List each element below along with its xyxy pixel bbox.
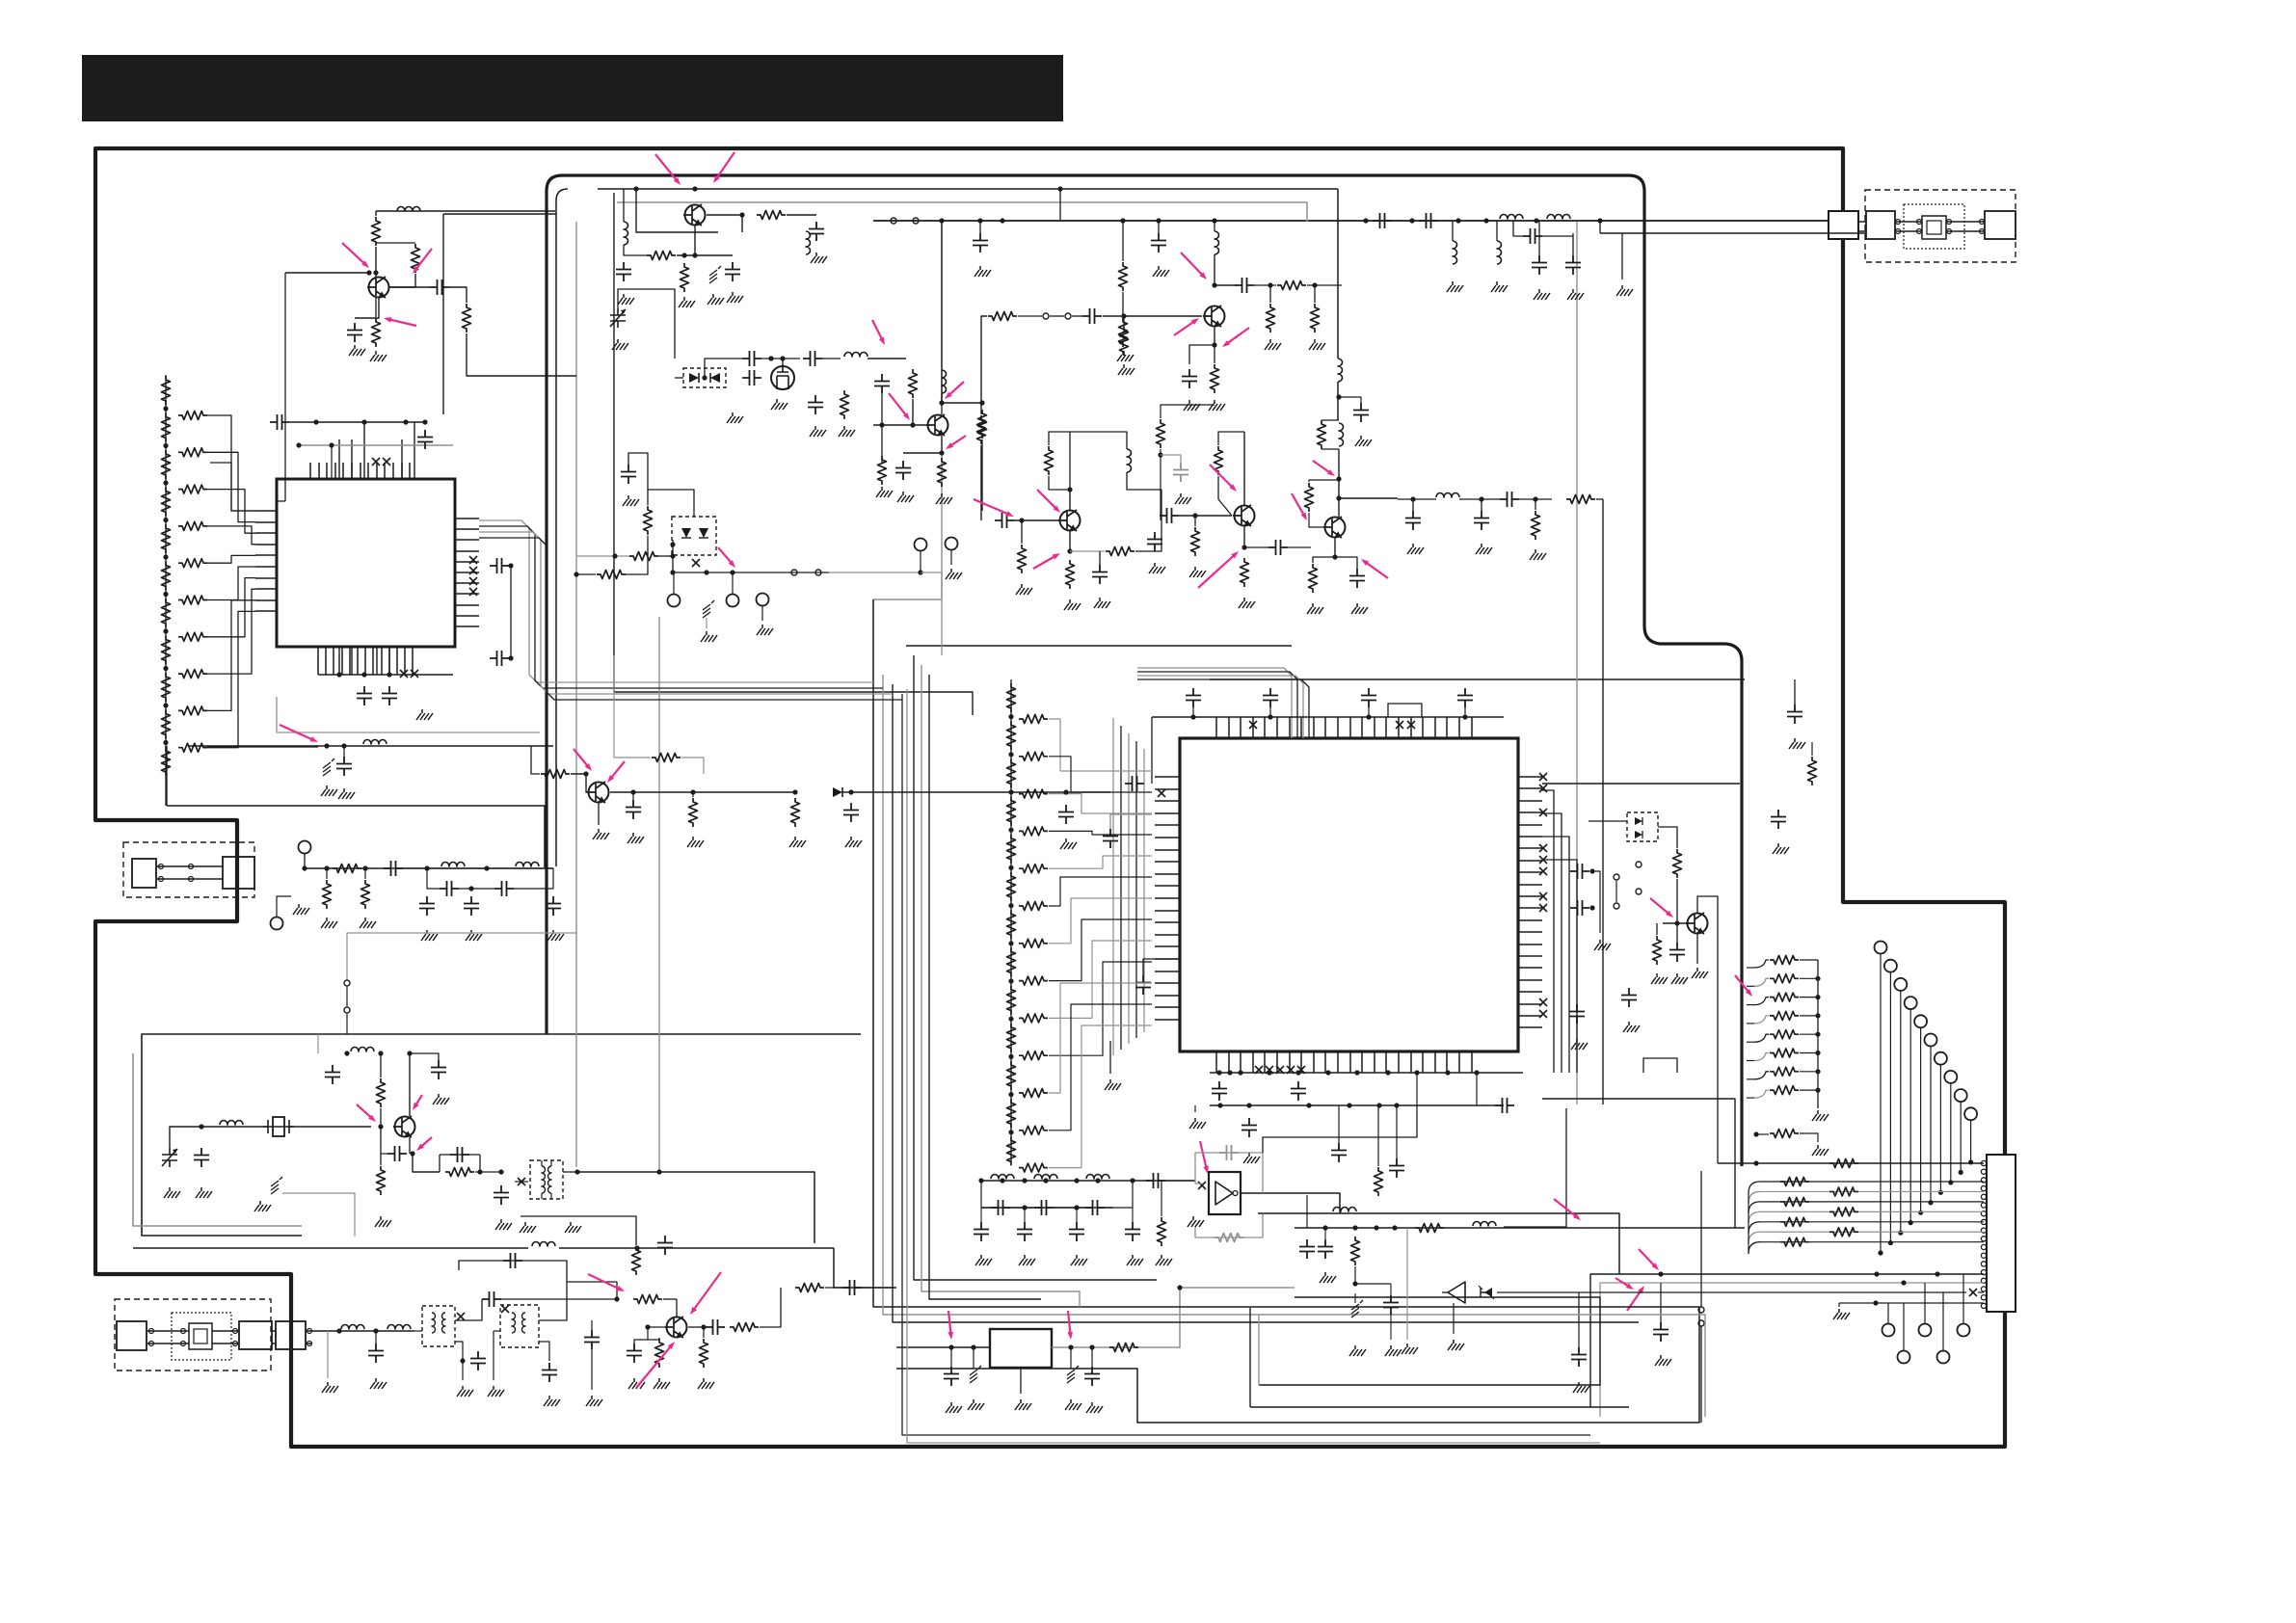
wire Q2 bias rail bbox=[636, 189, 718, 232]
wire bbox=[658, 555, 673, 557]
inductor L22 bbox=[516, 863, 539, 866]
junction bbox=[1212, 218, 1216, 223]
capacitor C76 bbox=[1135, 975, 1151, 995]
wire bbox=[1811, 742, 1813, 756]
capacitor C73 bbox=[1361, 688, 1376, 707]
ground U2 bottom bbox=[1189, 1118, 1206, 1129]
wire bbox=[1338, 1105, 1340, 1143]
wire bbox=[326, 868, 328, 879]
wire bbox=[648, 490, 694, 517]
capacitor C52 bbox=[1092, 565, 1108, 584]
junction bbox=[1462, 714, 1467, 719]
wire bbox=[1309, 513, 1324, 527]
wire bbox=[591, 1349, 593, 1390]
inductor L6 bbox=[942, 370, 947, 393]
pin bbox=[815, 570, 821, 575]
capacitor C14 bbox=[490, 651, 509, 666]
ground bbox=[1651, 973, 1668, 984]
wire south rail 2 bbox=[1259, 1297, 1600, 1385]
capacitor C120 bbox=[194, 1148, 209, 1167]
ground bbox=[1594, 940, 1611, 950]
audio PA inverter box bbox=[1209, 1172, 1241, 1214]
arrow Q5 c bbox=[1181, 253, 1207, 279]
NC bbox=[1249, 721, 1257, 729]
capacitor C101 bbox=[626, 800, 641, 819]
wire bbox=[1127, 472, 1161, 520]
ground bbox=[1573, 1382, 1589, 1393]
resistor R707 bbox=[1007, 947, 1016, 976]
antenna assembly dashed enclosure bbox=[1865, 190, 2016, 262]
resistor R23 bbox=[757, 211, 786, 220]
arrow Q6 b bbox=[1037, 490, 1060, 513]
wire bbox=[1747, 1041, 1754, 1043]
ground inv bbox=[1188, 1216, 1204, 1227]
capacitor C131 bbox=[482, 1291, 501, 1307]
wire bbox=[567, 1281, 617, 1283]
capacitor C79 bbox=[1291, 1081, 1306, 1101]
NC bbox=[1969, 1289, 1977, 1296]
wire U2 left bus 2 bbox=[1120, 726, 1122, 1050]
ground bbox=[897, 492, 914, 502]
cap bridge bbox=[459, 1261, 567, 1282]
fan curve bbox=[1754, 960, 1769, 968]
arrow PA out bbox=[1554, 1199, 1581, 1220]
junction bbox=[1674, 920, 1679, 925]
speaker filter element bbox=[189, 1323, 212, 1349]
ground TP5 bbox=[946, 569, 962, 579]
oscillator section frame bbox=[133, 1034, 861, 1236]
resistor R90 bbox=[1770, 956, 1799, 965]
ground bbox=[876, 487, 893, 497]
capacitor C85 bbox=[1570, 864, 1589, 879]
junction bbox=[378, 1124, 383, 1129]
capacitor C137 bbox=[706, 1319, 725, 1335]
inductor L36 bbox=[1473, 1222, 1496, 1227]
capacitor C54 bbox=[1160, 508, 1179, 523]
inductor L20 bbox=[363, 740, 387, 745]
feedthrough bbox=[323, 758, 334, 776]
junction bbox=[163, 406, 168, 411]
wire bbox=[1658, 827, 1677, 848]
resistor R708 bbox=[1007, 986, 1016, 1015]
junction bbox=[1483, 218, 1488, 223]
wire bbox=[703, 1327, 705, 1338]
inductor L34 bbox=[1086, 1175, 1109, 1180]
junction bbox=[1067, 487, 1072, 492]
capacitor C12 bbox=[417, 430, 433, 449]
wire bbox=[1535, 499, 1536, 510]
resistor R705 bbox=[1007, 872, 1016, 901]
capacitor C74 bbox=[1457, 688, 1473, 707]
wire bbox=[1070, 1347, 1072, 1369]
resistor R158 bbox=[1158, 1217, 1166, 1246]
ground U1 bbox=[416, 709, 433, 720]
wire reg output bbox=[1052, 1288, 1180, 1347]
wire bbox=[1069, 531, 1071, 551]
wire U2 top feed 2 bbox=[1137, 672, 1297, 738]
resistor R106 bbox=[1780, 1237, 1809, 1246]
junction bbox=[1212, 342, 1216, 347]
wire AF route bbox=[167, 806, 545, 867]
capacitor C86 bbox=[1570, 900, 1589, 916]
ground bbox=[338, 788, 355, 799]
w bbox=[1354, 1293, 1356, 1303]
NC bbox=[1407, 721, 1415, 729]
wire to bus bbox=[467, 333, 576, 376]
capacitor C29 bbox=[808, 395, 823, 414]
NC bbox=[1539, 998, 1547, 1006]
junction bbox=[702, 375, 707, 380]
resistor R100 bbox=[1780, 1178, 1809, 1186]
resistor R105 bbox=[162, 562, 171, 591]
capacitor C51 bbox=[995, 513, 1014, 528]
transistor Q8 bbox=[1323, 517, 1346, 538]
ground bbox=[375, 1216, 391, 1227]
wire pad drop bbox=[1930, 1047, 1932, 1203]
junction bbox=[296, 442, 301, 447]
NC bbox=[1539, 785, 1547, 792]
RF section frame bbox=[547, 175, 1742, 1166]
RC pair bbox=[440, 1155, 480, 1172]
wire pad drop bbox=[1970, 1121, 1972, 1162]
wire bbox=[635, 1228, 637, 1245]
wire Q11 collector bbox=[409, 1053, 411, 1116]
junction bbox=[424, 865, 429, 870]
NC bbox=[1539, 1010, 1547, 1018]
wire TP drop bbox=[921, 572, 942, 655]
wire bbox=[1309, 480, 1339, 482]
wire bbox=[380, 1053, 382, 1078]
wire bank link bbox=[1049, 941, 1152, 1018]
junction bbox=[1363, 218, 1368, 223]
wire bbox=[760, 1288, 781, 1327]
wire bbox=[1243, 432, 1245, 505]
wire Q4 base bbox=[913, 399, 927, 425]
inductor L12 bbox=[1453, 241, 1457, 264]
ground bbox=[586, 1396, 602, 1406]
wire pad drop bbox=[1960, 1103, 1962, 1173]
resistor R94 bbox=[1770, 1030, 1799, 1039]
wire pad up bbox=[1903, 1303, 1905, 1350]
arrow TX1 bbox=[588, 1274, 625, 1291]
electrolytic bbox=[1067, 1366, 1079, 1383]
resistor R104 bbox=[162, 524, 171, 553]
junction bbox=[910, 422, 915, 427]
wire bbox=[862, 1287, 896, 1289]
capacitor C64 bbox=[1565, 255, 1581, 275]
junction bbox=[498, 1169, 503, 1174]
inductor L3 bbox=[806, 231, 811, 254]
wire bbox=[1269, 285, 1271, 303]
junction bbox=[1268, 714, 1272, 719]
resistor R92 bbox=[1770, 993, 1799, 1001]
arrow B+ bbox=[280, 725, 318, 742]
wire RX audio filter rail bbox=[981, 1180, 1195, 1182]
junction bbox=[1267, 1070, 1271, 1075]
antenna feed pins bbox=[1896, 220, 1985, 234]
wire Q9 collector bbox=[1697, 896, 1718, 1163]
pin bbox=[1614, 874, 1619, 880]
junction bbox=[1312, 282, 1317, 287]
inverter feedback loop bbox=[1195, 1153, 1263, 1237]
junction bbox=[1074, 1178, 1079, 1183]
wire bbox=[614, 655, 651, 758]
capacitor C136 bbox=[627, 1344, 642, 1363]
inductor L7 bbox=[1127, 449, 1132, 472]
wire U2 left bus 4 bbox=[1135, 741, 1137, 1038]
ground bbox=[1773, 843, 1789, 854]
arrow Q10 bbox=[574, 749, 592, 771]
wire bbox=[1481, 499, 1482, 511]
resistor R131 bbox=[323, 880, 332, 909]
wire gray loop bbox=[282, 1193, 355, 1237]
resistor R31 bbox=[909, 369, 918, 398]
terminal pad B bbox=[1882, 1324, 1895, 1337]
junction bbox=[1008, 1054, 1013, 1059]
wire U1 top rail 2 bbox=[299, 444, 453, 446]
wire bbox=[675, 791, 796, 793]
wire bbox=[1158, 221, 1160, 233]
fan curve 2 bbox=[1749, 1191, 1760, 1203]
wire bbox=[1676, 879, 1678, 923]
wire bbox=[403, 867, 553, 869]
ground bbox=[1153, 266, 1169, 277]
capacitor C24 bbox=[616, 262, 631, 281]
ground bbox=[1789, 738, 1805, 749]
capacitor C78 bbox=[1212, 1081, 1227, 1101]
inductor L23 bbox=[220, 1121, 243, 1126]
resistor R101 bbox=[1829, 1187, 1858, 1196]
wire ladder link bbox=[207, 555, 255, 563]
capacitor C75 bbox=[1125, 776, 1144, 791]
ext jack box bbox=[276, 1321, 306, 1349]
arrow L4 bbox=[872, 320, 885, 345]
voltage regulator IC bbox=[990, 1329, 1052, 1368]
wire reg output 2 bbox=[1180, 1287, 1295, 1289]
arrow Q1 base bbox=[342, 243, 369, 268]
title bar bbox=[82, 55, 1063, 121]
arrow Q6 e bbox=[1033, 553, 1060, 569]
antenna filter element bbox=[1922, 216, 1946, 239]
wire corner 1625 bbox=[1504, 1108, 1566, 1227]
wire bbox=[623, 189, 625, 222]
wire pad up bbox=[1942, 1292, 1944, 1350]
wire bbox=[1161, 1181, 1162, 1216]
wire bbox=[981, 439, 983, 511]
ground bbox=[1065, 1399, 1081, 1410]
junction bbox=[163, 703, 168, 707]
junction bbox=[422, 419, 427, 424]
wire bank spine bbox=[1010, 679, 1012, 1161]
junction bbox=[1455, 218, 1460, 223]
wire U1 east link bbox=[510, 566, 512, 658]
resistor R701 bbox=[1007, 721, 1016, 750]
arrow Q8 top bbox=[1313, 461, 1335, 476]
capacitor C56b bbox=[1353, 403, 1369, 422]
resistor R702 bbox=[1007, 758, 1016, 787]
resistor R12 bbox=[412, 244, 420, 273]
resistor R22 bbox=[681, 263, 689, 292]
ground bbox=[360, 918, 376, 928]
junction bbox=[378, 1051, 383, 1055]
wire VCC mid rail bbox=[906, 645, 1292, 647]
wire bbox=[616, 1282, 618, 1299]
junction bbox=[1043, 1178, 1048, 1183]
wire bank link bbox=[1049, 962, 1152, 1055]
wire VCC rail upper bbox=[598, 188, 1338, 190]
junction bbox=[1898, 1231, 1903, 1236]
ground bbox=[1534, 289, 1550, 300]
antenna connector J1 bbox=[1829, 211, 1858, 239]
capacitor C146 bbox=[1017, 1222, 1032, 1241]
wire vertical bus C bbox=[614, 193, 973, 715]
NC bbox=[501, 1305, 509, 1313]
capacitor C146 bbox=[1125, 1222, 1140, 1241]
wire bbox=[501, 1298, 540, 1300]
junction bbox=[163, 592, 168, 597]
wire bbox=[1747, 1060, 1754, 1062]
junction bbox=[407, 1051, 412, 1055]
wire gray link up bbox=[347, 933, 576, 979]
capacitor C72 bbox=[1263, 688, 1278, 707]
NC bbox=[1266, 1066, 1273, 1074]
resistor R140 bbox=[377, 1078, 386, 1107]
resistor R85 bbox=[1375, 1167, 1383, 1196]
wire mic audio bbox=[305, 867, 553, 869]
wire bbox=[576, 573, 596, 575]
wire bbox=[1072, 315, 1082, 317]
wire Q1 base feed bbox=[285, 272, 369, 274]
wire Q1 collector bbox=[375, 247, 377, 273]
junction bbox=[199, 1124, 203, 1129]
wire vertical bus F bbox=[1602, 499, 1604, 1104]
capacitor C16 bbox=[382, 686, 397, 705]
wire bbox=[706, 618, 707, 628]
detector op-amp bbox=[1442, 1282, 1465, 1303]
wire bbox=[663, 1298, 677, 1300]
wire bbox=[1800, 1052, 1818, 1054]
transistor Q10 bbox=[587, 782, 609, 803]
arrow Q10 c bbox=[607, 761, 625, 783]
capacitor C89 bbox=[1669, 943, 1685, 962]
junction bbox=[1063, 789, 1068, 794]
inductor L38 bbox=[1338, 359, 1343, 382]
ground C56b bbox=[1355, 436, 1372, 446]
junction bbox=[1067, 548, 1072, 553]
transistor Q11 bbox=[393, 1116, 415, 1137]
junction bbox=[1000, 218, 1004, 223]
board outline border bbox=[95, 148, 2005, 1447]
wire bbox=[648, 1338, 659, 1340]
wire Q6 collector bbox=[1069, 490, 1071, 510]
junction bbox=[634, 1245, 639, 1250]
junction bbox=[1008, 1092, 1013, 1097]
wire bbox=[1572, 233, 1574, 255]
pin bbox=[1043, 313, 1049, 319]
ground VC1 bbox=[612, 339, 628, 350]
terminal pad 3 bbox=[1894, 978, 1907, 991]
capacitor C34 bbox=[1151, 233, 1166, 253]
wire Q9 base bbox=[1663, 922, 1687, 924]
feedthrough bbox=[271, 1177, 282, 1194]
wire det rail east bbox=[1497, 1291, 1966, 1293]
capacitor C146 bbox=[974, 1222, 989, 1241]
capacitor C161 bbox=[1653, 1322, 1669, 1342]
NC bbox=[1255, 1066, 1263, 1074]
wire bbox=[676, 1299, 678, 1317]
junction bbox=[1008, 903, 1013, 908]
crystal X1 bbox=[263, 1117, 294, 1136]
wire bank link bbox=[1049, 1025, 1152, 1168]
wire U2 east 2 bbox=[1542, 1099, 1735, 1228]
wire bank link bbox=[1049, 757, 1152, 792]
resistor R27 bbox=[629, 552, 658, 561]
capacitor C115 bbox=[546, 896, 561, 916]
pin bbox=[1698, 1320, 1704, 1326]
NC pin mark bbox=[383, 458, 390, 466]
ground bbox=[1071, 1255, 1087, 1265]
ground bbox=[839, 426, 855, 437]
ground bbox=[421, 930, 438, 941]
wire bbox=[375, 298, 377, 317]
capacitor C77 bbox=[1103, 829, 1118, 848]
arrow Q11 e bbox=[416, 1137, 432, 1151]
wire bbox=[979, 221, 981, 233]
capacitor C134 bbox=[542, 1363, 557, 1382]
varactor diode pair box 2 bbox=[672, 517, 716, 555]
wire bbox=[1747, 1004, 1754, 1006]
wire B+ route bbox=[189, 745, 553, 747]
wire bbox=[672, 540, 674, 572]
wire bbox=[1800, 1089, 1818, 1091]
wire bbox=[1452, 221, 1454, 241]
ground bbox=[628, 1378, 645, 1389]
wire bbox=[1189, 345, 1215, 364]
speaker pins bbox=[149, 1329, 312, 1346]
wire U2 right bus 3 bbox=[1542, 837, 1569, 1073]
wire bbox=[1800, 1015, 1818, 1017]
capacitor C130 bbox=[368, 1344, 384, 1363]
wire bbox=[624, 245, 648, 255]
resistor R36 bbox=[1119, 318, 1128, 347]
resistor R109 bbox=[162, 710, 171, 739]
junction bbox=[768, 356, 773, 360]
NC pin mark bbox=[411, 670, 418, 678]
wire bbox=[1800, 1071, 1818, 1073]
NC bbox=[1276, 1066, 1284, 1074]
resistor R99 bbox=[1829, 1159, 1858, 1168]
NC bbox=[1396, 721, 1403, 729]
wire R12 top bbox=[376, 242, 415, 244]
resistor R157 bbox=[1109, 1344, 1138, 1352]
resistor R204 bbox=[178, 559, 207, 568]
wire Q2 out bbox=[707, 215, 742, 232]
wire to Q8 stage bbox=[1337, 189, 1339, 359]
resistor R104 bbox=[1780, 1217, 1809, 1226]
wire bbox=[822, 358, 841, 359]
junction bbox=[336, 1328, 341, 1333]
pin bbox=[1065, 313, 1071, 319]
resistor R703 bbox=[1007, 797, 1016, 826]
capacitor C145 bbox=[1085, 1200, 1105, 1215]
capacitor C111 bbox=[440, 881, 459, 896]
ground bbox=[1243, 1153, 1260, 1163]
capacitor C32 bbox=[895, 461, 911, 480]
IC U1 (left, FM IF subsystem) bbox=[277, 479, 455, 647]
wire gray link bbox=[873, 599, 942, 600]
junction bbox=[1815, 1069, 1820, 1074]
wire Q10 out bbox=[610, 791, 675, 793]
